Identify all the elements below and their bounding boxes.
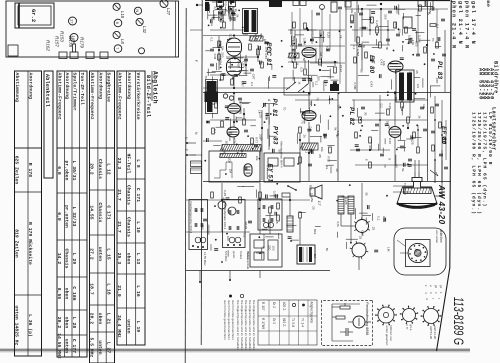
svg-text:30: 30 [363, 112, 367, 116]
svg-text:C87: C87 [435, 78, 439, 84]
wire vertical right edge [434, 96, 436, 183]
svg-text:2k: 2k [234, 9, 238, 13]
resistor R41 [357, 37, 360, 43]
svg-text:200: 200 [267, 245, 271, 250]
adjustment hole L32 [136, 18, 143, 25]
tube socket pinout P-base large [378, 307, 394, 323]
coil can L6 [403, 17, 412, 28]
svg-text:oben: oben [64, 317, 70, 329]
wire rail middle [203, 181, 451, 183]
svg-text:21,0: 21,0 [116, 285, 122, 297]
svg-text:10k: 10k [310, 193, 314, 198]
node [221, 199, 223, 201]
svg-text:L 19: L 19 [135, 321, 141, 333]
CRT connection wires [418, 160, 420, 172]
legend symbol dot note [229, 295, 232, 298]
potentiometer brightness [298, 84, 308, 92]
capacitor C22 [250, 68, 254, 70]
svg-text:Chassis: Chassis [126, 217, 132, 237]
resistor R31 [294, 62, 297, 68]
coil can L41 [293, 1, 299, 6]
svg-text:L 30/31: L 30/31 [71, 161, 77, 181]
legend table frame [258, 300, 317, 345]
svg-text:0,1: 0,1 [377, 216, 381, 221]
svg-text:0,5M: 0,5M [356, 49, 360, 56]
svg-text:PL 81: PL 81 [271, 99, 278, 118]
svg-text:15k: 15k [221, 46, 225, 51]
resistor R85 [299, 212, 302, 218]
svg-text:R77: R77 [327, 156, 331, 162]
svg-text:8,55: 8,55 [56, 288, 62, 300]
svg-text:Abstimm-Frequenz: Abstimm-Frequenz [89, 73, 95, 120]
svg-text:70: 70 [315, 97, 319, 101]
table band Ablenkteil values [15, 71, 42, 356]
capacitor C54 [254, 144, 258, 146]
svg-text:oben: oben [97, 313, 103, 325]
svg-text:1M: 1M [387, 247, 391, 252]
wire vertical audio [354, 12, 356, 42]
capacitor C6 [338, 6, 342, 8]
svg-text:25,3: 25,3 [116, 253, 122, 265]
svg-text:5,5 MHz: 5,5 MHz [89, 338, 95, 358]
CRT socket circle [408, 243, 427, 262]
capacitor C5 [316, 12, 320, 14]
svg-text:Chassis: Chassis [126, 185, 132, 205]
node [233, 34, 235, 36]
svg-text:25: 25 [318, 154, 322, 158]
svg-text:0,1: 0,1 [250, 82, 254, 87]
svg-text:21,7: 21,7 [116, 189, 122, 201]
wire [186, 199, 310, 201]
svg-text:HF-Teil: HF-Teil [126, 154, 132, 174]
svg-text:8: 8 [295, 63, 299, 65]
capacitor C52 [244, 129, 248, 131]
svg-text:C112: C112 [339, 65, 343, 72]
CRT socket bottom view box [394, 228, 446, 275]
svg-text:F: F [184, 149, 188, 151]
wire [190, 29, 202, 31]
svg-text:R77: R77 [255, 137, 259, 143]
remote resistor [336, 316, 345, 319]
svg-text:14,55: 14,55 [89, 205, 95, 219]
chassis outline Gr.2 panel [6, 1, 179, 57]
node [394, 92, 396, 94]
svg-text:20,2: 20,2 [56, 317, 62, 329]
resistor R62 [317, 125, 320, 131]
capacitor C61 [323, 133, 327, 135]
svg-text:LP 915/19/90 R: LP 915/19/90 R [487, 112, 493, 165]
resistor R27 [261, 62, 264, 68]
svg-text:L 28: L 28 [71, 317, 77, 329]
svg-text:30: 30 [335, 134, 339, 138]
trimmer tab [59, 52, 67, 59]
svg-text:Ton-ZF-Teil: Ton-ZF-Teil [79, 73, 85, 106]
svg-text:PY 83: PY 83 [272, 126, 279, 145]
resistor R75 [369, 162, 372, 168]
resistor R84 [269, 207, 272, 213]
svg-text:pr.oben: pr.oben [64, 161, 70, 181]
svg-text:0,5M: 0,5M [303, 38, 307, 45]
resistor R51 [215, 102, 218, 108]
svg-text:L 21: L 21 [105, 313, 111, 325]
CRT anode connector [435, 195, 442, 197]
node [380, 3, 382, 5]
svg-text:0,5M: 0,5M [219, 58, 223, 65]
svg-text:70: 70 [383, 164, 387, 168]
CRT socket keyway [414, 250, 421, 257]
svg-text:21,7: 21,7 [116, 221, 122, 233]
adjustment hole 7 [114, 45, 122, 53]
svg-text:5k: 5k [394, 97, 398, 101]
svg-text:AW 53-20: AW 53-20 [429, 326, 433, 340]
svg-text:819 Zeilen: 819 Zeilen [14, 229, 20, 258]
output transformer Tr2 [396, 70, 414, 102]
svg-text:200: 200 [220, 52, 224, 57]
svg-text:0,25: 0,25 [259, 112, 263, 118]
resistor R76 [387, 109, 390, 115]
svg-text:L 15: L 15 [105, 248, 111, 260]
node [306, 27, 308, 29]
svg-text:500: 500 [259, 34, 263, 39]
resistor R23 [249, 44, 252, 50]
resistor R82 [239, 197, 242, 203]
svg-text:L 36 (p): L 36 (p) [27, 314, 33, 337]
resistor R46 [394, 22, 397, 28]
svg-text:10k: 10k [350, 8, 354, 13]
svg-text:24,4 MHz: 24,4 MHz [116, 315, 122, 338]
filter screen block [330, 84, 339, 91]
svg-text:Abstimm-Frequenz: Abstimm-Frequenz [117, 73, 123, 120]
capacitor C31 [298, 43, 302, 45]
svg-text:0,25: 0,25 [409, 87, 413, 93]
coil can L42 [300, 1, 306, 6]
svg-text:27,2: 27,2 [89, 248, 95, 260]
svg-text:AW 53-20: AW 53-20 [478, 68, 484, 100]
svg-text:200: 200 [259, 134, 263, 139]
capacitor C71 [356, 148, 360, 150]
coil box3 [263, 222, 268, 227]
capacitor C24 [210, 63, 214, 65]
svg-text:C 186: C 186 [71, 286, 77, 300]
resistor column box3 [277, 203, 280, 209]
tube PL81 [228, 104, 241, 114]
svg-text:R179: R179 [80, 37, 85, 48]
resistor R9 [371, 17, 374, 23]
wire [288, 29, 345, 31]
capacitor C23 [210, 48, 214, 50]
svg-text:8: 8 [400, 100, 404, 102]
svg-text:durch Punkte gekennzeichnet: durch Punkte gekennzeichnet [223, 300, 227, 340]
deflection coil Lb [348, 196, 354, 214]
svg-text:15k: 15k [409, 71, 413, 76]
svg-text:5k: 5k [401, 168, 405, 172]
svg-text:C 171: C 171 [135, 188, 141, 202]
resistor R22 [218, 54, 221, 60]
svg-text:L 13: L 13 [135, 253, 141, 265]
CRT neck leads [393, 185, 413, 187]
coil can Dr2 [229, 1, 236, 7]
schematic sheet right border line [437, 0, 452, 351]
electrolytic C81 [218, 201, 226, 209]
capacitor C44 [442, 53, 446, 55]
svg-text:Abgleich: Abgleich [152, 71, 159, 104]
svg-text:0,1: 0,1 [436, 24, 440, 29]
svg-text:100: 100 [226, 236, 230, 241]
coil can L44 [418, 1, 425, 7]
CRT screen face [397, 204, 437, 208]
svg-text:0,1: 0,1 [315, 81, 319, 86]
svg-text:L 8: L 8 [135, 159, 141, 168]
svg-text:0,1: 0,1 [210, 37, 214, 42]
svg-text:4,7k: 4,7k [233, 138, 237, 144]
resistor R1 [223, 22, 226, 28]
wire [394, 93, 396, 126]
svg-text:0,5: 0,5 [416, 84, 420, 89]
svg-text:1k: 1k [426, 12, 430, 16]
svg-text:18,7: 18,7 [89, 283, 95, 295]
svg-text:R128: R128 [244, 222, 248, 230]
wire [294, 30, 296, 60]
trimmer tab [100, 52, 108, 59]
svg-text:2k: 2k [335, 169, 339, 173]
svg-text:C43: C43 [213, 54, 217, 60]
svg-text:30: 30 [365, 192, 369, 196]
capacitor C21 [244, 58, 248, 60]
line transformer winding upper [222, 145, 261, 152]
svg-text:L 12: L 12 [105, 163, 111, 175]
svg-text:10k: 10k [326, 46, 330, 51]
svg-text:0,1: 0,1 [224, 2, 228, 7]
svg-text:500: 500 [292, 36, 296, 41]
wire verticals audio stage [361, 45, 363, 60]
svg-text:25: 25 [312, 206, 316, 210]
capacitor C74 [423, 128, 427, 130]
adjustment hole 6 [114, 19, 122, 27]
svg-text:Tl. 1-4: Tl. 1-4 [301, 318, 305, 327]
node [307, 29, 309, 31]
svg-text:0,1: 0,1 [239, 110, 243, 115]
trimmer tab [70, 52, 78, 59]
svg-text:C43: C43 [262, 235, 266, 241]
svg-text:L 17: L 17 [317, 197, 322, 206]
wire [361, 9, 363, 37]
capacitor C73 [408, 158, 412, 160]
tube ECC81 triode b [227, 58, 242, 76]
capacitor C84 [248, 220, 252, 222]
node [217, 8, 219, 10]
node [308, 92, 310, 94]
trimmer tab [86, 52, 94, 59]
svg-text:C87: C87 [242, 61, 246, 67]
svg-text:R61: R61 [254, 34, 258, 40]
svg-text:R153: R153 [60, 31, 65, 42]
connector block left [191, 161, 202, 167]
capacitor C32 [310, 38, 314, 40]
tuner input block [205, 2, 209, 11]
node [379, 119, 381, 121]
resistor R32 [304, 69, 307, 75]
svg-text:L 29: L 29 [71, 253, 77, 265]
svg-text:8: 8 [388, 158, 392, 160]
capacitor C53 [206, 120, 210, 122]
svg-text:0,1: 0,1 [379, 104, 383, 109]
svg-text:N: N [135, 9, 140, 12]
svg-text:L 16: L 16 [135, 285, 141, 297]
svg-text:Zweitlautsprecher 660-4: Zweitlautsprecher 660-4 [189, 201, 193, 234]
resistor R71 [359, 117, 362, 123]
electrolytic C82 [228, 207, 236, 215]
wire vertical bus mid [337, 93, 339, 181]
svg-text:C43: C43 [370, 81, 374, 87]
svg-text:L 27: L 27 [105, 342, 111, 354]
resistor R25 [221, 74, 224, 80]
coupling caps box2 [228, 210, 230, 214]
resistor R5 [293, 22, 296, 28]
shielding box Gr.2 [15, 3, 54, 28]
svg-text:50: 50 [325, 248, 329, 252]
coil can L45 [426, 1, 433, 7]
svg-text:15k: 15k [320, 147, 324, 152]
resistor R33 [319, 59, 322, 65]
svg-text:30: 30 [360, 69, 364, 73]
wire B+ rail upper [203, 92, 450, 94]
svg-text:0,5: 0,5 [300, 68, 304, 73]
svg-text:50: 50 [395, 164, 399, 168]
yoke connector plug 2 [352, 243, 366, 257]
svg-text:5k: 5k [236, 14, 240, 18]
svg-text:25: 25 [371, 227, 375, 231]
legend row symbol dot [302, 304, 305, 307]
resistor R43 [379, 42, 382, 48]
resistor R72 [369, 137, 372, 143]
remote capacitor [347, 328, 349, 336]
resistor R52 [243, 119, 246, 125]
svg-text:R 178: R 178 [27, 163, 33, 177]
svg-text:C87: C87 [264, 54, 268, 60]
svg-text:R 178/9: R 178/9 [261, 318, 265, 329]
svg-text:Abstimm-Frequenz: Abstimm-Frequenz [57, 73, 63, 120]
adjustment hole 17 [69, 17, 77, 25]
svg-text:17: 17 [70, 19, 75, 24]
mains switch [288, 186, 296, 190]
tube PL82 [302, 111, 316, 121]
svg-text:6,0: 6,0 [56, 166, 62, 175]
capacitor C72 [380, 153, 384, 155]
tube ECC81 triode a [227, 38, 242, 56]
svg-text:Anordnung: Anordnung [97, 73, 103, 100]
svg-text:Anschlußplatte 660-4: Anschlußplatte 660-4 [223, 201, 227, 230]
resistor R54 [212, 128, 215, 134]
tube EF80 video [302, 48, 316, 58]
resistor R83 [259, 192, 262, 198]
antenna terminal [196, 4, 198, 6]
capacitor C77 [435, 103, 439, 105]
svg-text:Chassis: Chassis [64, 249, 70, 269]
winding L36 [302, 143, 318, 150]
svg-text:8: 8 [220, 153, 224, 155]
screened block left 2 [207, 97, 213, 112]
tube EY51 [244, 164, 252, 177]
wire [361, 183, 363, 219]
wire [233, 93, 235, 104]
svg-text:100: 100 [411, 40, 415, 45]
svg-text:1M: 1M [228, 169, 232, 174]
svg-text:500: 500 [309, 101, 313, 106]
svg-text:L 18: L 18 [105, 283, 111, 295]
capacitor C51 [238, 97, 242, 99]
deflection coil La [338, 196, 344, 214]
winding L31 [289, 53, 299, 58]
pot box [284, 78, 310, 95]
svg-text:Dr 2: Dr 2 [272, 302, 276, 308]
svg-text:Netzanschluß: Netzanschluß [246, 252, 250, 269]
capacitor C62 [308, 163, 312, 165]
svg-text:50: 50 [302, 58, 306, 62]
svg-text:23,3: 23,3 [116, 158, 122, 170]
svg-text:R128: R128 [240, 149, 244, 157]
resistor R63 [329, 147, 332, 153]
resistor R42 [365, 52, 368, 58]
svg-text:113-8189 G: 113-8189 G [451, 297, 466, 345]
svg-text:0,5M: 0,5M [353, 83, 357, 90]
table band Bild-ZF Verstaerkerkreise [117, 71, 145, 345]
svg-text:70: 70 [300, 120, 304, 124]
potentiometer contrast [286, 82, 296, 90]
svg-text:L 32/33: L 32/33 [71, 207, 77, 227]
screened block left [207, 81, 217, 95]
svg-text:Anordnung: Anordnung [64, 73, 70, 100]
wire vertical [379, 95, 381, 150]
coil box1 [195, 237, 201, 243]
svg-text:g2: g2 [434, 285, 438, 289]
schematic sheet bottom border line [185, 8, 186, 363]
svg-text:unten 14825 Hz: unten 14825 Hz [14, 306, 20, 346]
CRT socket inner rect [406, 240, 431, 267]
svg-text:R 179 Rückseite: R 179 Rückseite [27, 222, 33, 265]
wire [290, 45, 345, 47]
resistor R81 [211, 192, 214, 198]
svg-text:1k: 1k [417, 115, 421, 119]
wire [308, 93, 310, 109]
adjustment hole small [139, 48, 145, 54]
ext speaker network box 1 [189, 200, 208, 250]
svg-text:L27: L27 [166, 8, 171, 16]
table band Saugkreise [90, 71, 115, 363]
svg-text:200: 200 [228, 158, 232, 163]
svg-text:819 Z.: 819 Z. [282, 318, 286, 327]
svg-text:1k: 1k [325, 166, 329, 170]
svg-text:L8: L8 [120, 39, 125, 44]
focus control arrow [430, 170, 438, 176]
adjustment hole 18 [70, 34, 78, 42]
wire [203, 35, 262, 37]
junction dots [221, 13, 223, 15]
node [233, 92, 235, 94]
svg-text:25: 25 [359, 236, 363, 240]
resistor R44 [424, 47, 427, 53]
svg-text:4,7k: 4,7k [222, 197, 226, 203]
svg-text:L18: L18 [120, 11, 125, 19]
svg-text:5k: 5k [362, 45, 366, 49]
svg-text:200: 200 [384, 14, 388, 19]
wire [310, 62, 345, 64]
svg-text:R77: R77 [308, 185, 312, 191]
svg-text:Bild-ZF-Teil: Bild-ZF-Teil [145, 75, 151, 118]
svg-text:R 157: R 157 [261, 302, 265, 311]
schematic sheet inner border line [201, 0, 202, 345]
adjustment hole L8 [113, 31, 120, 38]
svg-text:8: 8 [275, 222, 279, 224]
